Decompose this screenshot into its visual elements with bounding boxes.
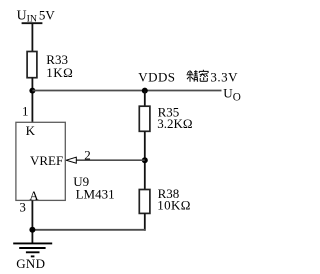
resistor R35	[139, 106, 150, 131]
pin 2 arrowhead	[66, 157, 76, 163]
svg-text:1: 1	[22, 104, 29, 119]
wire	[31, 23, 33, 51]
svg-text:GND: GND	[16, 256, 45, 271]
svg-text:3: 3	[19, 199, 26, 214]
wire VDDS rail	[32, 90, 221, 92]
label 精	[187, 70, 198, 82]
svg-text:3.2KΩ: 3.2KΩ	[157, 116, 192, 131]
wire	[144, 131, 146, 189]
wire	[32, 229, 146, 231]
IC U9 box	[16, 122, 65, 200]
junction dot	[142, 88, 148, 94]
svg-text:A: A	[29, 188, 39, 203]
power port UIN bar	[22, 22, 43, 24]
wire pin 3	[31, 200, 33, 242]
svg-text:LM431: LM431	[76, 187, 115, 202]
svg-text:3.3V: 3.3V	[210, 69, 238, 84]
resistor R33	[27, 52, 37, 78]
wire	[144, 91, 146, 107]
junction dot	[29, 227, 35, 233]
svg-text:2: 2	[84, 148, 91, 163]
junction dot	[29, 88, 35, 94]
svg-text:VDDS: VDDS	[138, 69, 175, 84]
svg-text:VREF: VREF	[30, 153, 63, 168]
svg-text:10KΩ: 10KΩ	[157, 198, 190, 213]
wire VREF net	[76, 159, 145, 161]
resistor R38	[139, 190, 150, 214]
wire	[144, 213, 146, 230]
svg-text:K: K	[26, 123, 36, 138]
label 密	[199, 70, 208, 81]
svg-text:1KΩ: 1KΩ	[46, 65, 73, 80]
wire	[31, 78, 33, 123]
ground	[13, 243, 52, 256]
junction dot	[142, 157, 148, 163]
svg-text:5V: 5V	[39, 7, 56, 22]
